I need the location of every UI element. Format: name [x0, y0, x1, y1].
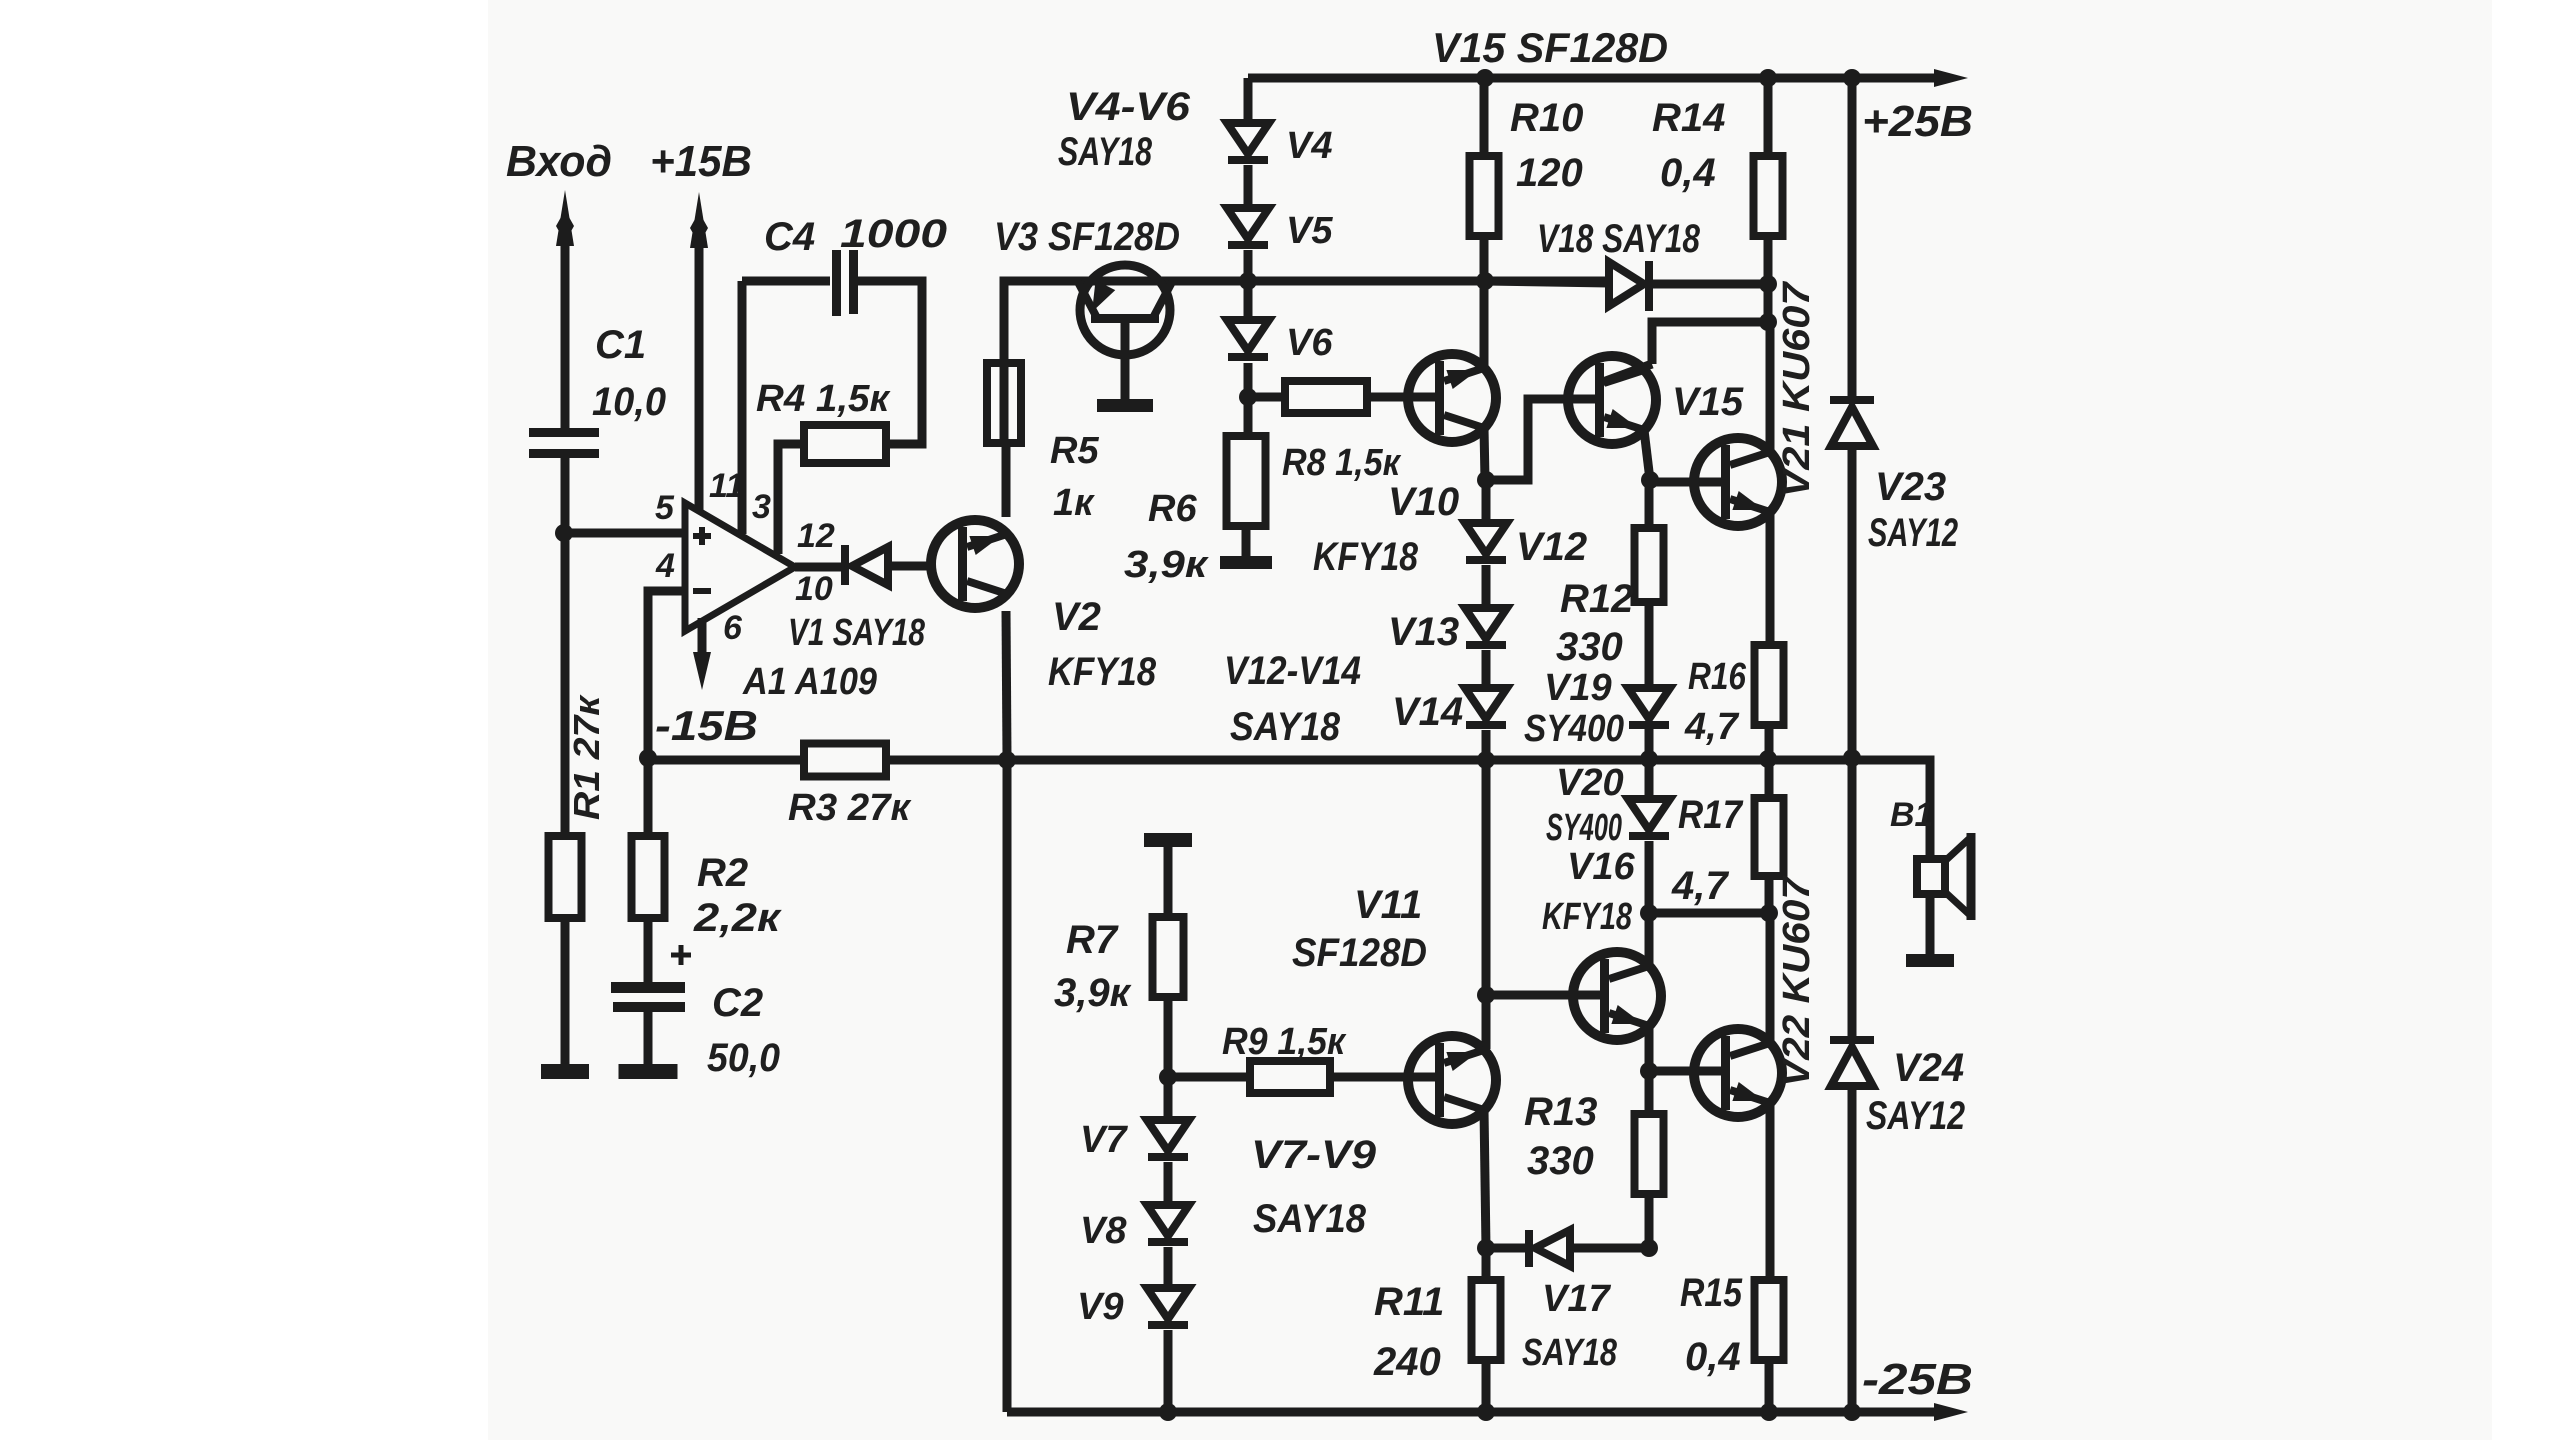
- svg-text:V7-V9: V7-V9: [1251, 1133, 1377, 1177]
- svg-text:R3 27к: R3 27к: [788, 787, 912, 829]
- svg-text:R1 27к: R1 27к: [566, 694, 607, 820]
- svg-text:KFY18: KFY18: [1048, 650, 1157, 694]
- svg-text:-25В: -25В: [1862, 1355, 1973, 1404]
- svg-text:A1 A109: A1 A109: [742, 661, 877, 703]
- svg-text:R11: R11: [1374, 1280, 1444, 1324]
- svg-text:V23: V23: [1875, 465, 1946, 509]
- svg-text:SY400: SY400: [1546, 807, 1622, 849]
- svg-text:V4: V4: [1286, 125, 1332, 167]
- svg-text:R4 1,5к: R4 1,5к: [756, 378, 891, 420]
- svg-text:V4-V6: V4-V6: [1066, 85, 1191, 129]
- svg-text:V2: V2: [1052, 595, 1101, 639]
- svg-text:KFY18: KFY18: [1313, 535, 1419, 579]
- svg-text:V11: V11: [1354, 883, 1422, 927]
- svg-text:V24: V24: [1893, 1046, 1964, 1090]
- svg-text:B1: B1: [1890, 796, 1933, 834]
- svg-text:SAY18: SAY18: [1058, 130, 1153, 174]
- svg-text:5: 5: [655, 489, 675, 527]
- svg-text:V19: V19: [1544, 667, 1612, 709]
- svg-text:SAY12: SAY12: [1866, 1094, 1965, 1138]
- svg-text:V20: V20: [1556, 762, 1624, 804]
- svg-text:330: 330: [1556, 625, 1623, 669]
- svg-text:C4: C4: [764, 215, 815, 259]
- svg-text:Вход: Вход: [506, 137, 612, 186]
- svg-text:R10: R10: [1510, 96, 1583, 140]
- svg-text:R7: R7: [1066, 918, 1119, 962]
- svg-text:SY400: SY400: [1524, 708, 1624, 750]
- svg-text:R15: R15: [1680, 1271, 1743, 1315]
- svg-text:4: 4: [655, 547, 675, 585]
- svg-text:4,7: 4,7: [1684, 706, 1740, 748]
- svg-text:SAY18: SAY18: [1230, 705, 1341, 749]
- svg-text:6: 6: [723, 609, 743, 647]
- svg-text:R13: R13: [1524, 1090, 1597, 1134]
- svg-text:V9: V9: [1077, 1286, 1123, 1328]
- svg-text:R9 1,5к: R9 1,5к: [1222, 1021, 1347, 1063]
- svg-text:C2: C2: [712, 981, 763, 1025]
- svg-text:SF128D: SF128D: [1292, 931, 1427, 975]
- svg-text:1к: 1к: [1053, 482, 1095, 524]
- svg-text:0,4: 0,4: [1685, 1335, 1741, 1379]
- svg-text:R5: R5: [1050, 430, 1099, 472]
- svg-text:R16: R16: [1688, 656, 1747, 698]
- svg-text:R2: R2: [697, 851, 748, 895]
- svg-text:SAY18: SAY18: [1253, 1197, 1367, 1241]
- svg-text:0,4: 0,4: [1660, 151, 1716, 195]
- svg-text:+25В: +25В: [1862, 97, 1973, 146]
- svg-text:330: 330: [1527, 1139, 1594, 1183]
- svg-text:SAY18: SAY18: [1522, 1332, 1618, 1374]
- svg-text:R17: R17: [1678, 793, 1744, 837]
- svg-text:C1: C1: [595, 323, 646, 367]
- svg-text:V21 KU607: V21 KU607: [1776, 280, 1818, 497]
- svg-text:V15: V15: [1672, 380, 1744, 424]
- svg-text:+15В: +15В: [650, 137, 752, 186]
- svg-text:10: 10: [795, 570, 833, 608]
- svg-text:V12: V12: [1516, 525, 1587, 569]
- svg-text:V13: V13: [1388, 610, 1459, 654]
- svg-text:50,0: 50,0: [707, 1036, 780, 1080]
- svg-text:V10: V10: [1388, 480, 1459, 524]
- svg-text:R12: R12: [1560, 577, 1633, 621]
- svg-text:V7: V7: [1080, 1119, 1128, 1161]
- svg-text:3,9к: 3,9к: [1124, 544, 1209, 586]
- svg-text:V6: V6: [1286, 322, 1333, 364]
- svg-text:V1 SAY18: V1 SAY18: [788, 612, 926, 654]
- svg-text:V15 SF128D: V15 SF128D: [1432, 24, 1668, 71]
- svg-text:4,7: 4,7: [1671, 864, 1729, 908]
- svg-text:KFY18: KFY18: [1542, 896, 1633, 938]
- svg-text:R14: R14: [1652, 96, 1725, 140]
- svg-text:3: 3: [752, 488, 771, 526]
- svg-text:V18 SAY18: V18 SAY18: [1537, 217, 1701, 261]
- svg-text:R8 1,5к: R8 1,5к: [1282, 442, 1402, 484]
- svg-text:V16: V16: [1567, 846, 1635, 888]
- svg-text:V5: V5: [1286, 210, 1333, 252]
- svg-text:-15В: -15В: [655, 702, 758, 749]
- svg-text:V8: V8: [1080, 1210, 1127, 1252]
- svg-text:SAY12: SAY12: [1868, 511, 1958, 555]
- svg-text:V12-V14: V12-V14: [1224, 649, 1361, 693]
- svg-text:V17: V17: [1542, 1278, 1611, 1320]
- svg-text:10,0: 10,0: [592, 380, 666, 424]
- svg-text:3,9к: 3,9к: [1054, 971, 1132, 1015]
- svg-text:V22 KU607: V22 KU607: [1776, 875, 1818, 1087]
- svg-text:R6: R6: [1148, 488, 1197, 530]
- svg-text:2,2к: 2,2к: [693, 896, 782, 940]
- svg-text:V3 SF128D: V3 SF128D: [994, 215, 1180, 259]
- svg-text:V14: V14: [1392, 690, 1463, 734]
- svg-text:1000: 1000: [840, 212, 947, 256]
- svg-text:240: 240: [1373, 1340, 1441, 1384]
- svg-text:12: 12: [797, 517, 835, 555]
- svg-text:120: 120: [1516, 151, 1583, 195]
